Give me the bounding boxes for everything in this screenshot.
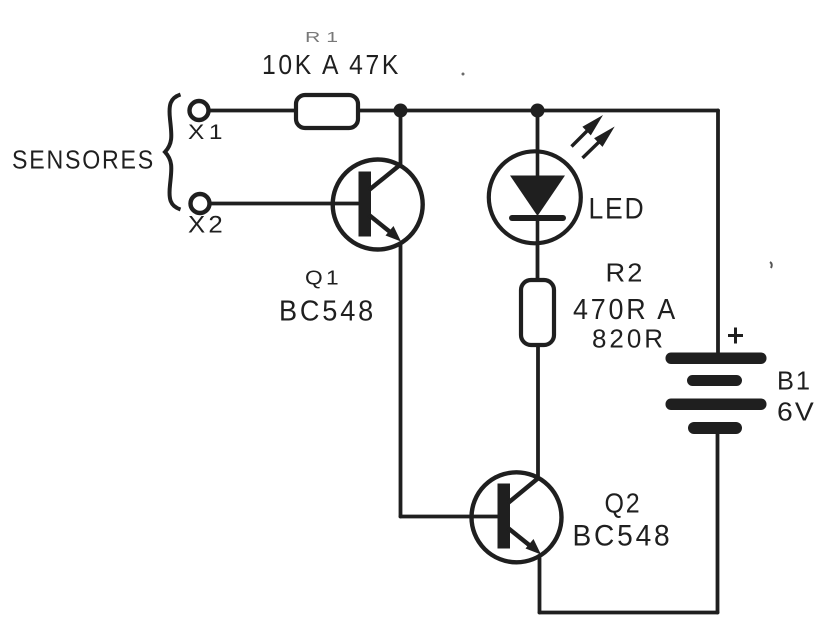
- node B junction dot: [531, 104, 545, 118]
- wire: LED to R2: [536, 243, 540, 281]
- wire: bottom rail up to battery minus: [716, 430, 720, 613]
- wire: to Q2 base: [401, 515, 499, 519]
- LED light arrow 1: [572, 115, 604, 147]
- svg-text:BC548: BC548: [279, 296, 376, 328]
- svg-text:SENSORES: SENSORES: [12, 145, 155, 175]
- wire: R1 to top-right corner: [358, 109, 718, 113]
- wire: junction B down to LED: [536, 111, 540, 153]
- svg-text:LED: LED: [589, 193, 646, 226]
- wire: X2 to Q1 base: [209, 202, 358, 206]
- scan speck: [462, 73, 465, 76]
- svg-text:BC548: BC548: [573, 520, 673, 553]
- transistor Q1: [333, 160, 423, 250]
- svg-text:6V: 6V: [777, 397, 816, 427]
- wire: Q2 emitter down to bottom rail: [538, 558, 542, 613]
- svg-text:X1: X1: [188, 120, 227, 144]
- svg-text:R 1: R 1: [305, 29, 338, 46]
- battery plus sign: [728, 328, 743, 344]
- wire: right rail down to battery plus: [716, 111, 720, 355]
- resistor R2: [521, 280, 554, 345]
- svg-text:Q2: Q2: [605, 488, 642, 519]
- svg-text:X2: X2: [188, 212, 226, 239]
- wire: X1 to resistor R1: [208, 109, 296, 113]
- svg-text:B1: B1: [777, 366, 812, 396]
- svg-text:10K A 47K: 10K A 47K: [262, 49, 401, 80]
- svg-text:470R A: 470R A: [573, 294, 678, 326]
- node A junction dot: [394, 104, 408, 118]
- battery B1: [666, 353, 767, 435]
- scan speck: [770, 262, 772, 268]
- LED D1: [489, 151, 581, 243]
- wire: bottom rail: [540, 611, 718, 615]
- wire: R2 to Q2 collector: [536, 344, 540, 478]
- wire: Q1 emitter down: [399, 244, 403, 517]
- terminal X2: [191, 194, 210, 213]
- wire: junction A down to Q1 collector: [399, 111, 403, 166]
- LED light arrow 2: [583, 127, 615, 159]
- terminal X1: [190, 101, 209, 120]
- brace for sensores: [165, 95, 181, 210]
- resistor R1: [296, 95, 358, 128]
- svg-text:Q1: Q1: [305, 267, 342, 290]
- svg-text:R2: R2: [606, 258, 645, 288]
- transistor Q2: [472, 472, 562, 562]
- svg-text:820R: 820R: [592, 324, 666, 354]
